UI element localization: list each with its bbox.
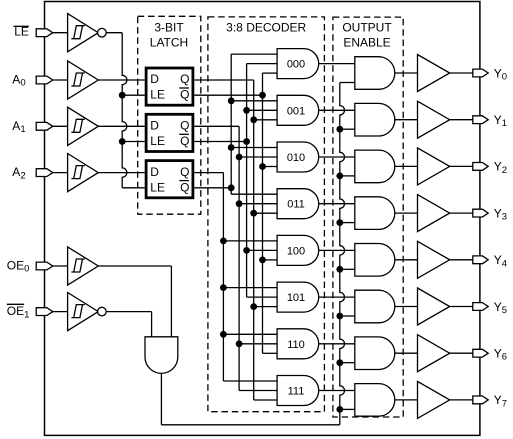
svg-text:OUTPUT: OUTPUT: [342, 21, 392, 35]
svg-text:010: 010: [287, 152, 305, 164]
svg-text:Q: Q: [180, 165, 189, 179]
svg-text:011: 011: [287, 199, 305, 211]
svg-text:Q: Q: [180, 134, 189, 148]
svg-text:D: D: [150, 72, 159, 86]
svg-text:110: 110: [287, 339, 305, 351]
svg-text:001: 001: [287, 105, 305, 117]
svg-text:101: 101: [287, 292, 305, 304]
svg-text:D: D: [150, 165, 159, 179]
svg-text:Q: Q: [180, 72, 189, 86]
svg-text:LE: LE: [150, 88, 165, 102]
svg-text:LE: LE: [150, 134, 165, 148]
svg-text:111: 111: [288, 386, 305, 398]
svg-text:D: D: [150, 119, 159, 133]
svg-text:LATCH: LATCH: [150, 35, 188, 49]
svg-text:Q: Q: [180, 180, 189, 194]
svg-text:LE: LE: [150, 180, 165, 194]
svg-text:Q: Q: [180, 119, 189, 133]
svg-text:ENABLE: ENABLE: [343, 35, 390, 49]
svg-text:100: 100: [287, 245, 305, 257]
svg-text:000: 000: [287, 59, 305, 71]
svg-text:Q: Q: [180, 88, 189, 102]
svg-text:3:8 DECODER: 3:8 DECODER: [226, 21, 306, 35]
svg-text:3-BIT: 3-BIT: [154, 21, 184, 35]
